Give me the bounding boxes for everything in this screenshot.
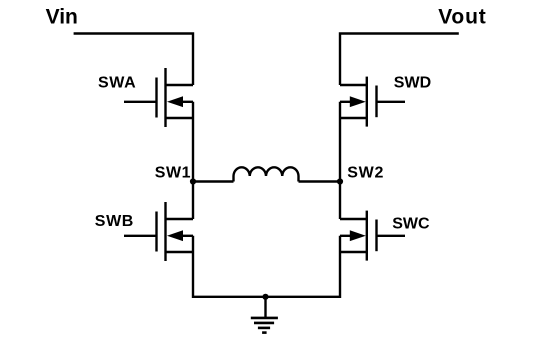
inductor L1 bbox=[234, 167, 299, 181]
wire SWA gate lead bbox=[124, 101, 157, 103]
svg-text:SWD: SWD bbox=[394, 74, 431, 91]
wire Vin to SWA drain bbox=[74, 34, 193, 86]
wire ground stem bbox=[264, 297, 266, 318]
svg-text:SWB: SWB bbox=[95, 213, 134, 230]
junction node SW1 bbox=[190, 178, 196, 184]
svg-text:SW2: SW2 bbox=[347, 164, 384, 181]
transistor SWB bbox=[157, 202, 194, 261]
junction node SW2 bbox=[337, 178, 343, 184]
transistor SWD bbox=[340, 77, 377, 127]
wire SWB gate lead bbox=[124, 235, 157, 237]
wire SW1 to inductor bbox=[193, 180, 234, 182]
ground bbox=[251, 318, 278, 333]
transistor SWC bbox=[340, 211, 377, 261]
transistor SWA bbox=[157, 68, 194, 127]
wire SWD gate lead bbox=[377, 101, 406, 103]
wire SWA source to SW1 node to SWB drain bbox=[192, 102, 194, 219]
junction node ground rail bbox=[262, 294, 268, 300]
svg-text:SW1: SW1 bbox=[155, 164, 191, 181]
svg-text:SWA: SWA bbox=[98, 74, 136, 91]
svg-text:Vin: Vin bbox=[46, 5, 78, 28]
wire inductor to SW2 bbox=[299, 180, 341, 182]
wire SWC source to ground rail bbox=[266, 236, 341, 297]
wire SWD source to SW2 node to SWC drain bbox=[339, 102, 341, 219]
svg-text:Vout: Vout bbox=[438, 5, 486, 28]
svg-text:SWC: SWC bbox=[392, 216, 430, 233]
wire SWB source to ground rail bbox=[193, 236, 266, 297]
wire SWC gate lead bbox=[377, 235, 406, 237]
wire Vout to SWD drain bbox=[340, 34, 459, 86]
